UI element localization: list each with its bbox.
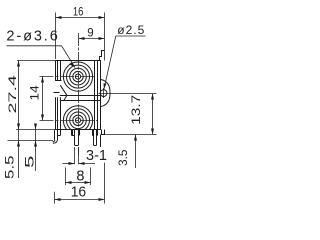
dim 3-1: ext lines from middle pin	[74, 147, 76, 164]
dim 16 top: dimension line	[56, 17, 105, 19]
svg-text:8: 8	[76, 168, 84, 184]
middle pin	[72, 130, 74, 136]
vertical center axis (dashed)	[78, 33, 80, 155]
body right inner line 1	[97, 60, 99, 130]
ext line bracket bottom right	[102, 134, 157, 136]
dim 16 bottom: dimension line	[55, 199, 105, 201]
divider line lower	[60, 100, 101, 102]
svg-text:5.5: 5.5	[4, 156, 16, 180]
svg-text:ø2.5: ø2.5	[117, 23, 145, 37]
13.7 arrows	[151, 94, 154, 100]
body right edge	[100, 60, 102, 130]
3-1 arrows	[69, 162, 75, 165]
right lobe around small hole	[101, 80, 110, 107]
svg-text:16: 16	[73, 5, 84, 19]
ø2.5 leader arrow	[104, 83, 107, 89]
svg-text:3.5: 3.5	[118, 150, 130, 167]
top-right tab	[100, 51, 105, 61]
svg-text:14: 14	[29, 85, 41, 101]
body left inner line 2 upper	[60, 60, 62, 80]
body left edge upper	[55, 60, 57, 80]
2-ø3.6 leader arrow	[69, 62, 75, 67]
3.5 arrow	[134, 135, 137, 141]
bottom circle horizontal centerline	[40, 120, 98, 122]
dim 9: dimension line	[79, 38, 105, 40]
left pin shoulder	[60, 130, 62, 136]
dim 3.5 line	[135, 135, 137, 169]
body left inner line 1 lower	[57, 97, 59, 130]
clip contact diagonal upper	[60, 85, 67, 95]
top circle horizontal centerline	[40, 76, 97, 78]
ext line top for 27.4	[17, 60, 55, 62]
right pin	[92, 130, 94, 136]
body bottom edge	[55, 129, 101, 131]
dim 16 bottom: extension lines	[54, 192, 56, 204]
27.4 bottom arrow	[17, 124, 20, 130]
dim 5 vertical line	[35, 124, 37, 172]
svg-text:5: 5	[24, 156, 36, 169]
divider line upper	[60, 95, 101, 97]
body left inner line 2 lower	[60, 97, 62, 130]
svg-text:9: 9	[87, 27, 93, 39]
small hole vertical centerline	[103, 88, 105, 98]
dim 13.7 line	[152, 94, 154, 135]
left small edge	[54, 92, 60, 94]
label ø2.5 underline and leader	[104, 36, 146, 89]
left opening top cap	[55, 80, 61, 82]
svg-text:16: 16	[71, 184, 87, 201]
9 arrows	[79, 37, 85, 40]
svg-text:13.7: 13.7	[131, 95, 143, 125]
svg-text:27.4: 27.4	[7, 75, 19, 114]
small hole horizontal centerline / ext for 13.7	[99, 93, 157, 95]
dim 8: extension lines	[65, 168, 67, 186]
left bracket pin	[54, 130, 56, 140]
svg-text:2-ø3.6: 2-ø3.6	[6, 28, 59, 44]
dim 16 top: extension lines	[55, 13, 57, 60]
small hole circle o2.5	[100, 90, 107, 97]
body right inner line 2	[94, 60, 96, 130]
label 2-ø3.6 underline and leader	[7, 46, 76, 68]
top jack concentric circles	[63, 62, 92, 91]
16 bottom arrows	[55, 198, 61, 201]
bottom-right bracket	[102, 130, 105, 135]
clip contact diagonal lower	[64, 96, 67, 101]
16 top arrows	[56, 16, 62, 19]
5.5 arrow	[17, 141, 20, 147]
body top edge	[55, 60, 101, 62]
dim 3-1: dimension line segments	[62, 163, 74, 165]
14 arrows	[41, 77, 44, 83]
8 arrows	[66, 181, 72, 184]
body left inner line 1 upper	[57, 60, 59, 80]
27.4 top arrow	[17, 61, 20, 67]
svg-text:3-1: 3-1	[86, 147, 107, 164]
ext line bracket foot (for 5.5)	[8, 140, 54, 142]
dim 8: dimension line	[66, 182, 91, 184]
body left edge lower	[55, 97, 57, 130]
dim 14 vertical line	[42, 77, 44, 121]
bottom jack concentric circles (clipped at body bottom)	[63, 106, 92, 135]
bottom-right bracket ground pin	[100, 135, 102, 148]
dim 27.4 / 5.5 vertical line	[18, 60, 20, 178]
ext line body bottom (for 27.4/5)	[16, 129, 55, 131]
5 arrow	[34, 124, 37, 130]
arrowheads	[17, 16, 154, 201]
